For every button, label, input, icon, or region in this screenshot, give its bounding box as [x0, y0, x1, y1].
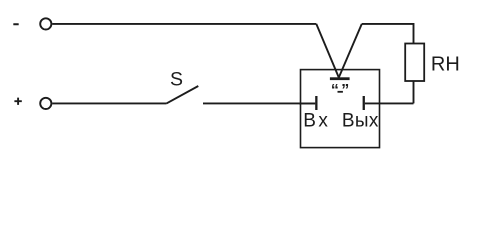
resistor RH: [405, 44, 424, 82]
switch S blade: [167, 86, 199, 103]
input terminal tick: [315, 96, 317, 110]
label minus of "-" electrode: [338, 91, 343, 93]
wire diagonal right from converter: [339, 24, 362, 78]
electrode bar at converter top: [330, 77, 350, 80]
terminal negative: [40, 18, 51, 29]
terminal positive: [40, 98, 51, 109]
svg-text:Вых: Вых: [342, 111, 379, 132]
wire down to resistor RH: [413, 23, 415, 44]
wire through box edge to input tick: [299, 102, 315, 104]
label minus (negative supply): [13, 23, 18, 25]
wire diagonal left into converter: [316, 24, 339, 78]
svg-text:S: S: [170, 69, 183, 91]
wire from switch to converter input: [203, 102, 315, 104]
wire top horizontal left: [52, 23, 316, 25]
wire top horizontal right: [362, 23, 414, 25]
svg-text:Вх: Вх: [303, 111, 330, 132]
converter box U1: [301, 70, 380, 148]
svg-text:RH: RH: [431, 53, 460, 75]
wire resistor bottom vertical: [413, 81, 415, 103]
output terminal tick: [363, 96, 365, 110]
wire from output tick to resistor branch: [365, 102, 414, 104]
wire bottom from positive terminal to switch: [52, 102, 166, 104]
svg-text:“”: “”: [331, 82, 352, 99]
label plus (positive supply): [14, 98, 21, 105]
